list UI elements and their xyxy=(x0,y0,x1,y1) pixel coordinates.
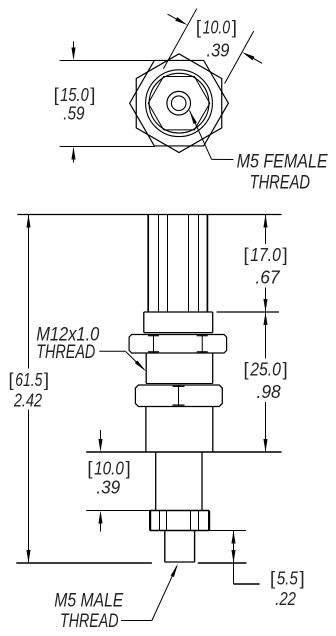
dimension [17.0] / .67 with extension line xyxy=(217,215,288,313)
svg-text:10.0: 10.0 xyxy=(203,17,231,38)
svg-text:]: ] xyxy=(299,568,304,589)
side view top edge / extension line xyxy=(17,214,281,216)
svg-text:17.0: 17.0 xyxy=(250,244,281,265)
svg-text:25.0: 25.0 xyxy=(249,359,281,380)
washer section below nut xyxy=(146,353,213,384)
svg-text:M5 FEMALE: M5 FEMALE xyxy=(237,151,328,172)
svg-text:]: ] xyxy=(282,359,287,380)
svg-text:]: ] xyxy=(44,369,49,390)
hex nut 2 (corner-on) xyxy=(135,385,222,407)
label M5 MALE THREAD with leader arrow xyxy=(54,564,178,633)
svg-text:.39: .39 xyxy=(96,477,120,498)
flange (washer) below barrel xyxy=(144,312,213,333)
svg-text:.59: .59 xyxy=(63,103,84,124)
svg-text:.67: .67 xyxy=(255,267,280,288)
svg-text:THREAD: THREAD xyxy=(36,342,95,363)
top view small hex (10mm, vertices left-right) xyxy=(148,77,210,130)
top view hex B (nut outline, vertices top-bottom) xyxy=(136,54,222,153)
M12 threaded barrel with thread lines xyxy=(148,215,207,312)
svg-text:THREAD: THREAD xyxy=(60,611,119,632)
top view barrel circle xyxy=(149,73,209,133)
svg-text:[: [ xyxy=(244,244,249,265)
svg-text:.22: .22 xyxy=(275,588,296,609)
svg-text:.39: .39 xyxy=(207,40,230,61)
cylinder section (large) xyxy=(146,407,213,453)
svg-text:]: ] xyxy=(90,84,95,105)
svg-text:]: ] xyxy=(282,244,287,265)
M5 male stud xyxy=(165,530,195,562)
dimension [5.5] / .22 with leader xyxy=(16,531,304,610)
hex nut 3 (small 10mm hex) xyxy=(150,511,209,531)
top view hex A (nut outline, vertices left-right) xyxy=(130,60,229,146)
svg-text:61.5: 61.5 xyxy=(15,369,43,390)
dimension [10.0] / .39 side view xyxy=(86,430,150,532)
dimension [61.5] / 2.42 xyxy=(9,215,50,564)
svg-text:[: [ xyxy=(196,17,201,38)
svg-text:[: [ xyxy=(244,359,249,380)
svg-text:]: ] xyxy=(232,17,237,38)
top view flange circle xyxy=(146,70,213,137)
svg-text:10.0: 10.0 xyxy=(94,458,124,479)
svg-text:2.42: 2.42 xyxy=(13,390,43,411)
dimension [10.0] / .39 diagonal with extension lines and arrows xyxy=(163,9,262,84)
dimension [15.0] / .59 with extension lines and arrows xyxy=(54,42,155,163)
hex nut 1 (M12 nut, flat-on) xyxy=(129,335,227,354)
label M12x1.0 THREAD with leader arrow xyxy=(36,325,146,372)
svg-text:[: [ xyxy=(270,568,275,589)
svg-text:]: ] xyxy=(125,458,130,479)
dimension [25.0] / .98 xyxy=(244,312,288,452)
top view M5 female thread inner circle xyxy=(171,96,186,111)
svg-text:[: [ xyxy=(87,458,92,479)
svg-text:[: [ xyxy=(9,369,14,390)
svg-text:5.5: 5.5 xyxy=(277,568,299,589)
svg-text:THREAD: THREAD xyxy=(250,172,311,193)
svg-text:.98: .98 xyxy=(257,381,282,402)
extension line at cylinder step xyxy=(86,451,281,453)
svg-text:M5 MALE: M5 MALE xyxy=(54,590,123,611)
svg-text:[: [ xyxy=(54,84,59,105)
label M5 FEMALE THREAD with leader arrow xyxy=(190,111,328,194)
cylinder section (small) xyxy=(156,452,202,511)
top view M5 female thread outer circle xyxy=(167,91,191,115)
